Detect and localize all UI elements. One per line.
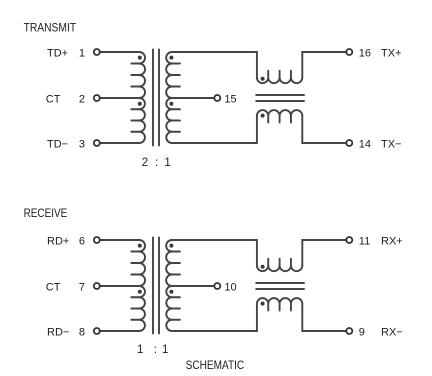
svg-text:CT: CT: [46, 281, 61, 293]
svg-text:1: 1: [137, 344, 143, 356]
svg-text:1: 1: [162, 344, 168, 356]
svg-text:3: 3: [79, 138, 85, 150]
svg-text:2: 2: [79, 93, 85, 105]
svg-text::: :: [154, 344, 157, 356]
svg-text:TRANSMIT: TRANSMIT: [24, 22, 77, 34]
svg-text:TX−: TX−: [381, 138, 401, 150]
svg-text:11: 11: [359, 235, 370, 247]
svg-text:9: 9: [359, 326, 365, 338]
svg-text::: :: [155, 157, 158, 169]
svg-text:TD−: TD−: [47, 138, 68, 150]
svg-text:RX−: RX−: [381, 326, 403, 338]
svg-text:10: 10: [224, 281, 236, 293]
svg-text:8: 8: [79, 326, 85, 338]
svg-text:SCHEMATIC: SCHEMATIC: [186, 358, 245, 372]
svg-text:15: 15: [224, 93, 236, 105]
svg-text:CT: CT: [46, 93, 61, 105]
svg-text:16: 16: [359, 47, 371, 59]
svg-text:RD+: RD+: [47, 235, 69, 247]
svg-text:TX+: TX+: [381, 47, 401, 59]
svg-text:1: 1: [79, 47, 85, 59]
svg-text:1: 1: [164, 157, 170, 169]
svg-text:RX+: RX+: [381, 235, 403, 247]
svg-text:RD−: RD−: [47, 326, 69, 338]
svg-text:RECEIVE: RECEIVE: [24, 208, 68, 220]
svg-text:2: 2: [142, 157, 148, 169]
svg-text:TD+: TD+: [47, 47, 68, 59]
svg-text:6: 6: [79, 235, 85, 247]
svg-text:14: 14: [359, 138, 371, 150]
svg-text:7: 7: [79, 281, 85, 293]
